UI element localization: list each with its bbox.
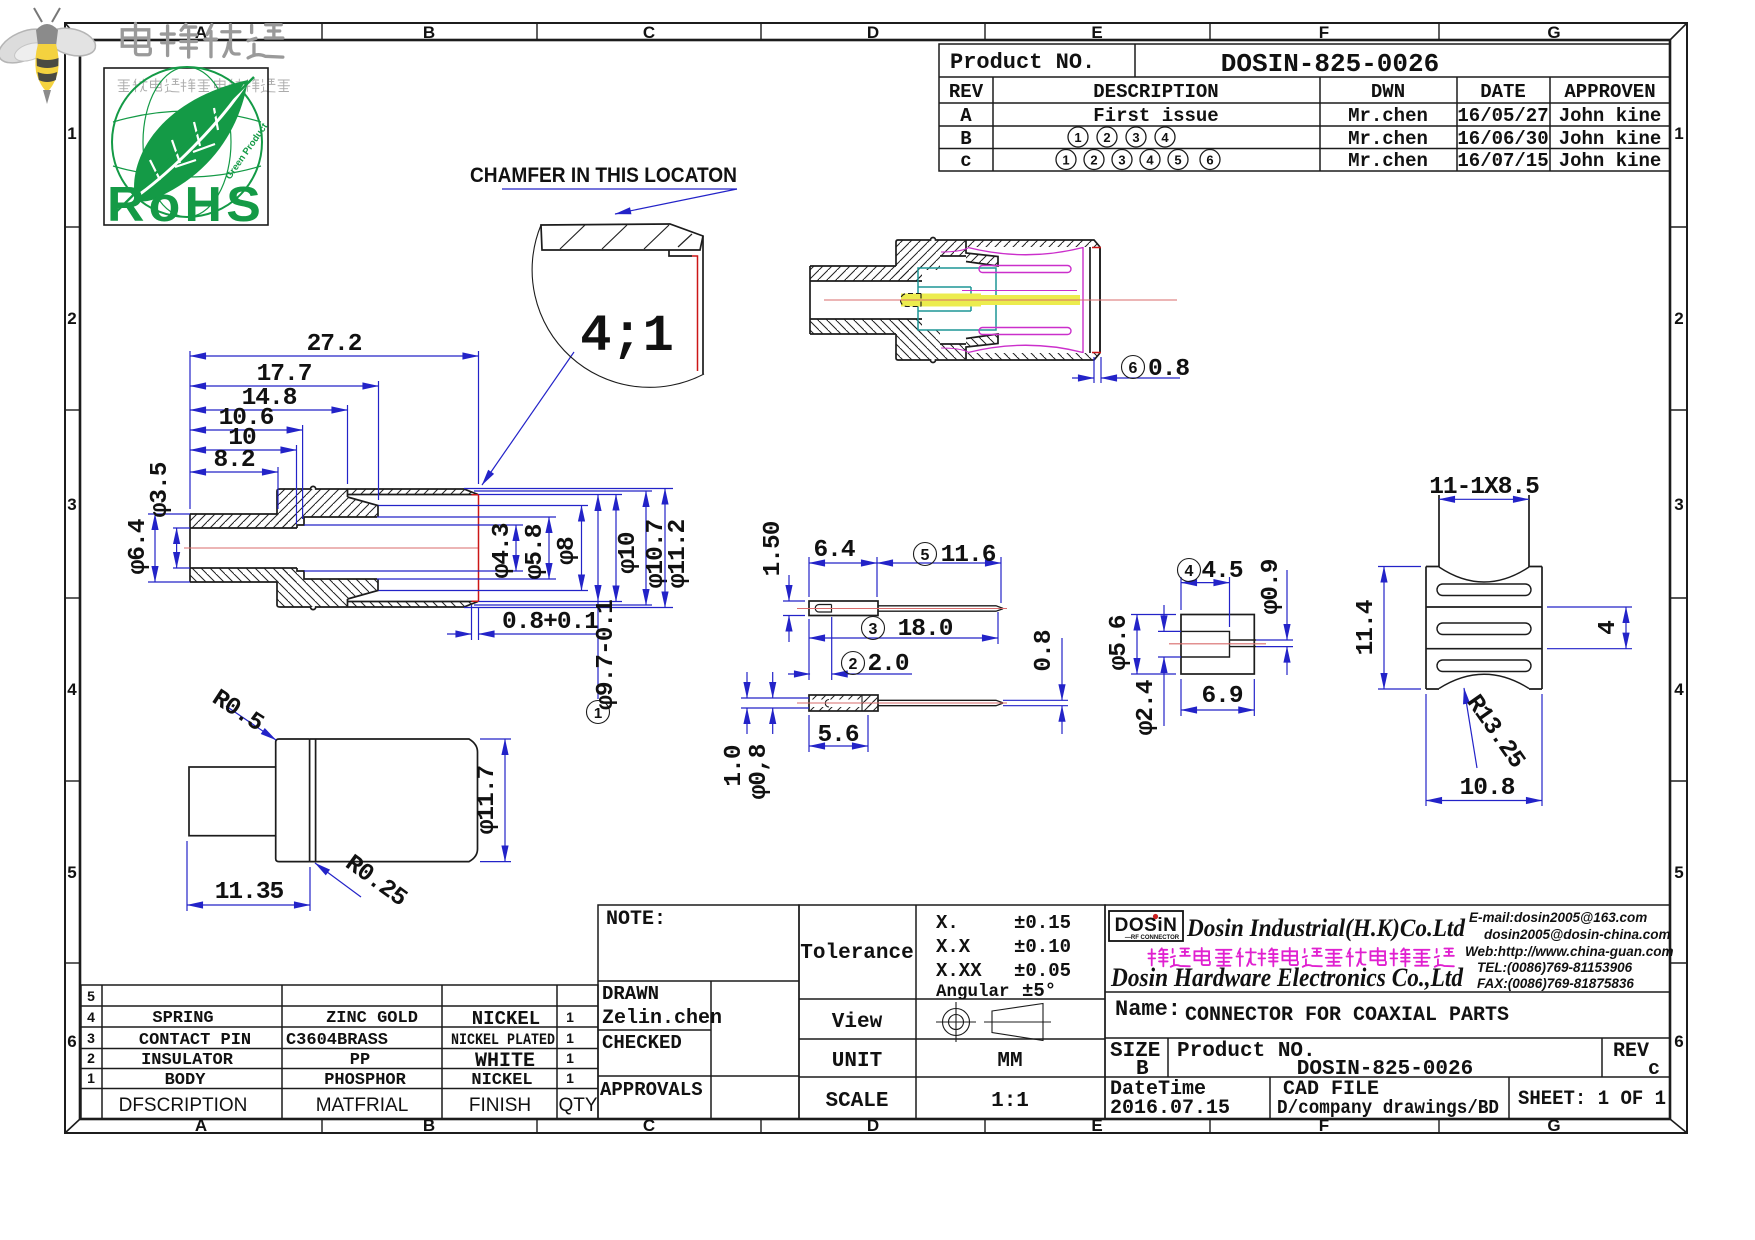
svg-text:0.8: 0.8 (1148, 356, 1189, 383)
revision table (939, 44, 1670, 172)
svg-text:John kine: John kine (1559, 128, 1662, 150)
svg-text:MATFRIAL: MATFRIAL (316, 1095, 409, 1116)
red centerline (184, 547, 479, 549)
svg-text:1.50: 1.50 (760, 521, 787, 576)
dim 0.8+0.1 bottom (471, 605, 473, 640)
spring view (1353, 474, 1632, 806)
svg-text:Angular: Angular (936, 982, 1010, 1002)
bee logo (0, 8, 98, 104)
svg-text:NICKEL PLATED: NICKEL PLATED (451, 1031, 555, 1049)
svg-text:1: 1 (566, 1070, 574, 1086)
grey brand text 电蜂优选 (122, 24, 283, 58)
svg-text:Product NO.: Product NO. (1177, 1040, 1316, 1063)
svg-text:D/company drawings/BD: D/company drawings/BD (1277, 1097, 1499, 1119)
svg-text:A: A (960, 105, 972, 127)
dim phi3.5 left (173, 527, 190, 529)
svg-text:QTY: QTY (558, 1095, 597, 1116)
svg-text:DATE: DATE (1480, 81, 1526, 103)
svg-text:4.5: 4.5 (1201, 558, 1242, 585)
svg-text:John kine: John kine (1559, 150, 1662, 172)
right diameter dims (515, 525, 517, 571)
dim 11-1X8.5 (1439, 498, 1529, 500)
svg-text:SPRING: SPRING (152, 1009, 213, 1028)
svg-text:dosin2005@dosin-china.com: dosin2005@dosin-china.com (1484, 927, 1670, 942)
svg-text:Web:http://www.china-guan.com: Web:http://www.china-guan.com (1465, 944, 1674, 959)
tolerance block (799, 905, 1105, 1119)
svg-text:UNIT: UNIT (832, 1050, 882, 1073)
dim 11.4 (1378, 566, 1421, 568)
svg-text:11.35: 11.35 (215, 879, 284, 906)
dim phi5.6 (1131, 614, 1176, 616)
svg-text:φ3.5: φ3.5 (147, 462, 174, 517)
dim 1.0 / phi0,8 left (741, 697, 809, 699)
svg-text:FAX:(0086)769-81875836: FAX:(0086)769-81875836 (1477, 976, 1634, 991)
dim 10.6 (190, 429, 303, 431)
circled numbers row B (1056, 127, 1220, 170)
svg-text:1: 1 (87, 1070, 95, 1086)
chamfer note underline (502, 188, 737, 190)
svg-text:φ9.7-0.1: φ9.7-0.1 (593, 600, 620, 710)
svg-text:10.8: 10.8 (1460, 775, 1515, 802)
svg-text:3: 3 (67, 495, 76, 514)
svg-text:BODY: BODY (165, 1071, 207, 1090)
svg-text:φ11.7: φ11.7 (474, 765, 501, 834)
svg-text:2: 2 (87, 1050, 95, 1066)
svg-text:1: 1 (1074, 130, 1081, 145)
bottom tables (81, 905, 1674, 1120)
svg-text:—RF CONNECTOR: —RF CONNECTOR (1125, 935, 1180, 941)
dim 17.7 (190, 385, 379, 387)
contact pin view B (bottom, sectioned) (809, 695, 1003, 711)
svg-text:2: 2 (1103, 130, 1110, 145)
svg-text:4: 4 (87, 1009, 95, 1025)
body cross-section lower half (mirror) (190, 568, 478, 610)
dim phi2.4 (1158, 630, 1181, 632)
svg-text:16/06/30: 16/06/30 (1457, 128, 1548, 150)
svg-text:C: C (643, 23, 655, 42)
svg-text:1:1: 1:1 (991, 1090, 1029, 1113)
svg-text:φ5.6: φ5.6 (1106, 615, 1133, 670)
parts list (81, 985, 598, 1119)
dim 6.4 / (5)11.6 (808, 557, 810, 597)
red centerline (824, 299, 1177, 301)
svg-text:1: 1 (1062, 153, 1069, 168)
dim (1) phi9.7-0.1 (597, 495, 599, 601)
body outline upper half (810, 238, 1101, 354)
svg-text:DWN: DWN (1371, 81, 1405, 103)
svg-text:0.8+0.1: 0.8+0.1 (502, 609, 598, 636)
leader R0.25 (315, 863, 361, 897)
hatched band (541, 224, 703, 250)
svg-text:Tolerance: Tolerance (800, 942, 913, 965)
left end cap of tube (189, 514, 191, 582)
svg-text:X.X: X.X (936, 936, 971, 958)
svg-text:NICKEL: NICKEL (471, 1071, 532, 1090)
svg-text:NOTE:: NOTE: (606, 908, 666, 931)
svg-text:View: View (832, 1011, 883, 1034)
svg-text:2.0: 2.0 (867, 651, 908, 678)
svg-text:6: 6 (1674, 1032, 1683, 1051)
svg-text:CONNECTOR FOR COAXIAL PARTS: CONNECTOR FOR COAXIAL PARTS (1185, 1004, 1509, 1027)
svg-text:4: 4 (1674, 680, 1684, 699)
dim 1.50 (783, 600, 805, 602)
view symbols (936, 1002, 1051, 1042)
svg-text:5: 5 (87, 988, 95, 1004)
inner border (80, 40, 1670, 1119)
svg-text:G: G (1547, 23, 1560, 42)
svg-text:C3604BRASS: C3604BRASS (286, 1031, 388, 1050)
svg-text:RoHS: RoHS (107, 178, 265, 232)
svg-text:INSULATOR: INSULATOR (141, 1051, 234, 1070)
contact pin view A (top) (809, 601, 1003, 616)
dim phi6.4 left (148, 513, 190, 515)
svg-text:3: 3 (1118, 153, 1125, 168)
dim 8.2 (190, 471, 278, 473)
svg-text:6: 6 (1129, 360, 1138, 377)
svg-text:PHOSPHOR: PHOSPHOR (324, 1071, 406, 1090)
red mating face (472, 495, 479, 601)
svg-text:6.9: 6.9 (1201, 683, 1242, 710)
dim phi0.9 (1256, 639, 1293, 641)
spring (magenta) (941, 247, 1083, 353)
svg-text:MM: MM (997, 1050, 1022, 1073)
svg-text:APPROVALS: APPROVALS (600, 1079, 703, 1101)
dim 14.8 (190, 409, 348, 411)
dim 5.6 (808, 715, 810, 752)
dim (3)18.0 (808, 619, 810, 680)
detail 4;1 (470, 164, 737, 387)
svg-text:B: B (960, 128, 971, 150)
svg-text:B: B (423, 23, 435, 42)
dosin logo (1109, 911, 1183, 941)
svg-text:3: 3 (1674, 495, 1683, 514)
leader arrow to chamfer band (615, 189, 737, 214)
svg-text:27.2: 27.2 (307, 331, 362, 358)
svg-text:6: 6 (67, 1032, 76, 1051)
dim 10.8 (1425, 694, 1427, 806)
svg-text:5.6: 5.6 (817, 722, 858, 749)
svg-text:Zelin.chen: Zelin.chen (602, 1007, 722, 1030)
dim (4)4.5 (1180, 577, 1182, 610)
leader R13.25 (1464, 688, 1477, 768)
svg-text:4: 4 (67, 680, 77, 699)
svg-text:CONTACT PIN: CONTACT PIN (139, 1031, 251, 1050)
phi10 / phi10.7 / phi11.2 (479, 494, 623, 496)
svg-text:11-1X8.5: 11-1X8.5 (1429, 474, 1539, 501)
svg-text:6: 6 (1206, 153, 1213, 168)
svg-text:NICKEL: NICKEL (472, 1008, 540, 1030)
svg-text:REV: REV (1613, 1040, 1649, 1063)
svg-text:1.0: 1.0 (721, 745, 748, 786)
svg-text:φ11.2: φ11.2 (665, 519, 692, 588)
svg-text:5: 5 (1674, 863, 1683, 882)
svg-text:TEL:(0086)769-81153906: TEL:(0086)769-81153906 (1477, 960, 1633, 975)
dim (2)2.0 (831, 617, 833, 680)
svg-text:3: 3 (869, 621, 878, 638)
svg-text:17.7: 17.7 (257, 361, 312, 388)
title block (1105, 905, 1670, 1119)
svg-text:REV: REV (949, 81, 984, 103)
svg-text:11.6: 11.6 (941, 542, 996, 569)
svg-text:John kine: John kine (1559, 105, 1662, 127)
leader R0.5 (226, 706, 276, 740)
svg-text:φ8: φ8 (554, 537, 581, 565)
svg-text:Mr.chen: Mr.chen (1348, 128, 1428, 150)
svg-text:DRAWN: DRAWN (602, 983, 659, 1005)
body cross-section upper half (190, 486, 478, 528)
dim (6)0.8 (1093, 357, 1095, 383)
insulator view (1106, 558, 1293, 735)
main section view (125, 331, 692, 724)
svg-text:Dosin Hardware Electronics Co.: Dosin Hardware Electronics Co.,Ltd (1110, 963, 1464, 992)
svg-text:1: 1 (566, 1030, 574, 1046)
svg-text:X.: X. (936, 912, 959, 934)
svg-text:ZINC GOLD: ZINC GOLD (326, 1009, 418, 1028)
dim 27.2 (190, 355, 479, 357)
svg-text:φ0,8: φ0,8 (746, 744, 773, 799)
contact pin (yellow) (901, 294, 981, 307)
svg-text:3: 3 (87, 1030, 95, 1046)
svg-text:11.4: 11.4 (1353, 600, 1380, 655)
svg-text:0.8: 0.8 (1031, 630, 1058, 671)
RoHS logo (104, 67, 271, 232)
svg-text:DOSiN: DOSiN (1115, 915, 1178, 936)
svg-text:Mr.chen: Mr.chen (1348, 150, 1428, 172)
assembly outline lower half (mirror) (810, 247, 1101, 363)
svg-text:X.XX: X.XX (936, 960, 982, 982)
svg-text:4: 4 (1161, 130, 1169, 145)
svg-text:4: 4 (1595, 621, 1622, 635)
svg-text:PP: PP (350, 1051, 370, 1070)
red marks right end (1092, 248, 1101, 353)
svg-text:5: 5 (67, 863, 76, 882)
svg-text:1: 1 (566, 1009, 574, 1025)
svg-text:1: 1 (1674, 124, 1683, 143)
svg-text:2: 2 (1090, 153, 1097, 168)
svg-text:±0.15: ±0.15 (1014, 912, 1071, 934)
Phi8 bore lines (blue) (379, 505, 589, 507)
top dim extension lines (190, 351, 479, 524)
Phi5.8 extension (377, 516, 556, 518)
svg-text:18.0: 18.0 (898, 616, 953, 643)
svg-text:φ2.4: φ2.4 (1133, 680, 1160, 735)
pin views (721, 521, 1068, 799)
svg-text:2: 2 (849, 656, 858, 673)
svg-text:6.4: 6.4 (813, 537, 854, 564)
svg-text:φ0.9: φ0.9 (1258, 559, 1285, 614)
note / drawn block (598, 905, 799, 1119)
svg-text:DESCRIPTION: DESCRIPTION (1093, 81, 1218, 103)
dim 10 (190, 449, 297, 451)
svg-text:DOSIN-825-0026: DOSIN-825-0026 (1221, 49, 1439, 79)
svg-text:Mr.chen: Mr.chen (1348, 105, 1428, 127)
svg-text:SCALE: SCALE (825, 1090, 888, 1113)
svg-text:E-mail:dosin2005@163.com: E-mail:dosin2005@163.com (1469, 910, 1647, 925)
svg-text:16/07/15: 16/07/15 (1457, 150, 1548, 172)
svg-text:2016.07.15: 2016.07.15 (1110, 1097, 1230, 1120)
svg-text:4: 4 (1185, 563, 1194, 580)
svg-text:8.2: 8.2 (213, 447, 254, 474)
svg-text:1: 1 (566, 1050, 574, 1066)
svg-text:1: 1 (67, 124, 76, 143)
svg-text:φ10: φ10 (615, 532, 642, 573)
svg-text:4;1: 4;1 (580, 307, 674, 366)
svg-text:±0.05: ±0.05 (1014, 960, 1071, 982)
svg-text:φ5.8: φ5.8 (522, 524, 549, 579)
corner diagonal marks (65, 23, 80, 40)
dim 11.35 (186, 841, 188, 911)
svg-text:Name:: Name: (1115, 997, 1181, 1022)
svg-text:φ6.4: φ6.4 (125, 519, 152, 574)
svg-text:WHITE: WHITE (475, 1050, 535, 1073)
svg-text:SHEET: 1 OF 1: SHEET: 1 OF 1 (1518, 1088, 1666, 1111)
insulator (teal) (918, 268, 996, 330)
svg-text:CHAMFER IN THIS LOCATON: CHAMFER IN THIS LOCATON (470, 164, 737, 187)
svg-text:16/05/27: 16/05/27 (1457, 105, 1548, 127)
svg-text:Product NO.: Product NO. (950, 50, 1095, 75)
svg-text:±0.10: ±0.10 (1014, 936, 1071, 958)
svg-text:Dosin Industrial(H.K)Co.Ltd: Dosin Industrial(H.K)Co.Ltd (1186, 915, 1465, 942)
leader to detail 4;1 (482, 352, 574, 485)
svg-text:2: 2 (1674, 309, 1683, 328)
svg-text:First issue: First issue (1093, 105, 1218, 127)
dim 4 (1547, 606, 1632, 608)
body view (187, 685, 511, 913)
assembly view (810, 238, 1189, 384)
detail boundary arc (532, 225, 704, 387)
svg-text:c: c (1648, 1058, 1660, 1081)
svg-text:FINISH: FINISH (469, 1095, 531, 1116)
svg-text:APPROVEN: APPROVEN (1564, 81, 1655, 103)
svg-text:F: F (1319, 23, 1329, 42)
svg-text:±5°: ±5° (1022, 980, 1056, 1002)
svg-text:D: D (867, 23, 879, 42)
dim 6.9 (1180, 679, 1182, 716)
dim 0.8 right (1003, 699, 1068, 701)
logos (0, 8, 289, 232)
svg-text:4: 4 (1146, 153, 1154, 168)
svg-text:5: 5 (1174, 153, 1181, 168)
grey subtitle 原厂直采电子连接器商城 (118, 79, 289, 93)
svg-text:3: 3 (1132, 130, 1139, 145)
dim phi11.7 (480, 738, 511, 740)
Phi4.3 extension (304, 524, 523, 526)
svg-text:DFSCRIPTION: DFSCRIPTION (119, 1095, 248, 1116)
svg-text:E: E (1091, 23, 1102, 42)
svg-text:c: c (960, 150, 971, 172)
svg-text:CHECKED: CHECKED (602, 1032, 682, 1054)
svg-text:5: 5 (921, 547, 930, 564)
svg-text:2: 2 (67, 309, 76, 328)
svg-text:φ4.3: φ4.3 (489, 523, 516, 578)
